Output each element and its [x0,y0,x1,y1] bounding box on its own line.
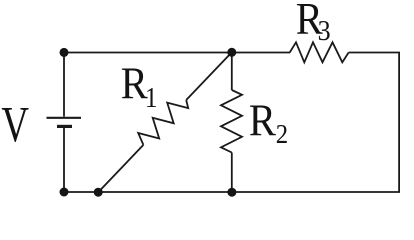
label R1 [121,60,158,114]
svg-text:1: 1 [145,82,158,114]
wire R1 to top node [186,52,232,100]
wire top node to R2 [231,52,233,90]
svg-text:2: 2 [276,119,288,149]
label R2 [249,97,288,149]
wire right side [398,53,400,193]
node bottom-middle junction dot [227,188,236,197]
svg-text:3: 3 [318,14,331,47]
battery V bottom plate [57,125,72,128]
wire left bottom (V- lead) [63,128,65,193]
node bottom R1 junction dot [94,188,103,197]
node top-left junction dot [60,48,69,57]
wire R2 to bottom node [231,153,233,193]
resistor R1 (diagonal) [138,100,188,145]
resistor R2 [221,90,242,153]
battery V top plate [47,117,82,119]
wire bottom [64,191,400,193]
wire top-left to R3 [64,52,290,54]
label V (source) [1,96,29,153]
wire bottom node to R1 [98,145,143,192]
wire R3 to top-right corner [349,52,400,54]
node top-middle junction dot [227,48,236,57]
wire left top (V+ lead) [63,53,65,117]
svg-text:V: V [1,96,29,153]
svg-text:R: R [249,97,276,146]
node bottom-left junction dot [60,188,69,197]
label R3 [296,0,331,47]
resistor R3 [290,42,349,62]
